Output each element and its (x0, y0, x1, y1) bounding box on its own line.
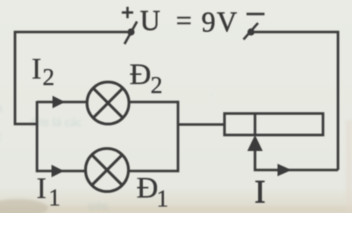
wire: right side up and to - terminal (255, 32, 339, 170)
source U positive terminal (122, 7, 137, 44)
label D1 (137, 172, 169, 213)
svg-text:2: 2 (43, 65, 55, 91)
svg-text:2: 2 (151, 73, 163, 99)
label U = 9V (140, 6, 238, 39)
svg-text:U: U (140, 6, 160, 37)
wire: bottom branch horizontal to lamp D1 (37, 170, 86, 173)
current arrow I1 (52, 165, 65, 178)
rheostat divider at wiper position (254, 114, 257, 136)
wire: top branch from lamp D2 to rejoin node (129, 101, 178, 104)
rheostat wiper arrow (pointing up into body) (247, 135, 262, 151)
svg-text:I: I (32, 53, 42, 86)
wire: top left horizontal from + terminal to left edge, down left side, to branch node (15, 32, 128, 124)
label D2 (130, 58, 163, 99)
lamp D2 (87, 82, 129, 124)
svg-text:=: = (176, 6, 192, 37)
wire: top branch horizontal to lamp D2 (37, 101, 88, 104)
wire: rejoin vertical node (177, 101, 180, 173)
wire: branch split vertical (node) (36, 101, 39, 172)
svg-text:Đ: Đ (130, 58, 152, 91)
svg-text:I: I (255, 175, 266, 211)
current arrow I (main) (278, 164, 292, 176)
svg-text:1: 1 (157, 187, 169, 213)
current arrow I2 (53, 96, 66, 109)
svg-text:.: . (210, 83, 213, 98)
rheostat body (225, 114, 324, 136)
svg-text:I: I (37, 172, 47, 205)
label I2 (32, 53, 55, 92)
wire: wiper arm down and bottom-right horizontal (255, 150, 338, 170)
source U negative terminal (244, 14, 265, 40)
wire: middle horizontal to rheostat (178, 123, 225, 126)
svg-text:1: 1 (49, 186, 61, 212)
lamp D1 (86, 149, 129, 192)
svg-text:trên: trên (88, 198, 109, 213)
svg-text:9V: 9V (202, 8, 239, 39)
label I1 (37, 172, 61, 212)
svg-text:c: c (0, 128, 2, 143)
wire: bottom branch from lamp D1 to rejoin node (129, 170, 179, 173)
svg-text:Đ: Đ (137, 172, 159, 205)
